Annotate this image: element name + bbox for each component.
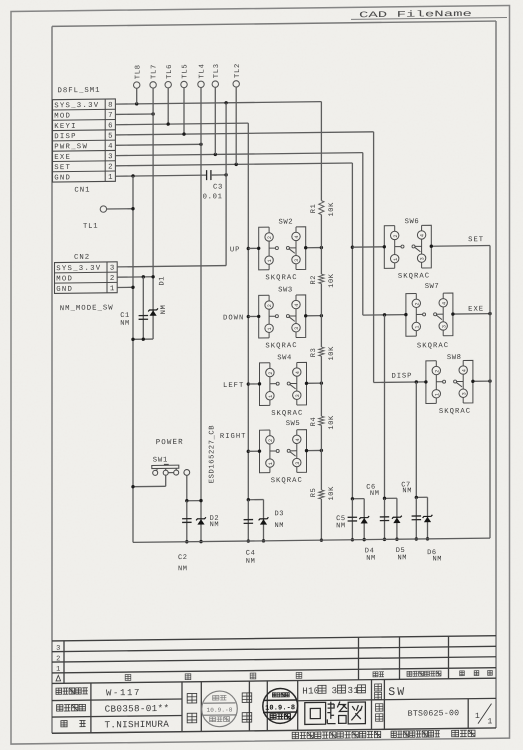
svg-text:SET: SET xyxy=(468,236,484,244)
svg-text:TL6: TL6 xyxy=(166,64,174,79)
svg-text:EXE: EXE xyxy=(54,154,71,162)
svg-text:NM: NM xyxy=(336,522,346,530)
svg-text:UP: UP xyxy=(230,246,241,254)
svg-text:10K: 10K xyxy=(328,346,336,361)
svg-text:SW8: SW8 xyxy=(447,354,462,362)
svg-text:2: 2 xyxy=(434,370,440,373)
svg-text:NM: NM xyxy=(120,320,130,328)
svg-text:T.NISHIMURA: T.NISHIMURA xyxy=(104,719,169,731)
svg-text:10K: 10K xyxy=(328,415,336,430)
svg-text:W-117: W-117 xyxy=(106,688,141,698)
svg-text:NM: NM xyxy=(275,522,285,530)
svg-text:1: 1 xyxy=(488,717,493,726)
svg-text:D1: D1 xyxy=(158,276,166,286)
svg-text:NM: NM xyxy=(366,555,376,563)
svg-text:1: 1 xyxy=(434,393,440,396)
svg-text:SW3: SW3 xyxy=(278,286,293,294)
svg-text:1: 1 xyxy=(393,258,399,261)
svg-text:SW: SW xyxy=(388,686,406,699)
svg-text:4: 4 xyxy=(461,369,467,372)
svg-text:1: 1 xyxy=(56,666,60,674)
svg-text:C2: C2 xyxy=(178,554,188,562)
svg-text:PWR_SW: PWR_SW xyxy=(54,143,88,151)
svg-text:1: 1 xyxy=(267,327,273,330)
svg-text:2: 2 xyxy=(108,163,112,171)
svg-text:2: 2 xyxy=(110,275,114,283)
svg-text:1: 1 xyxy=(414,326,420,329)
svg-text:D8FL_SM1: D8FL_SM1 xyxy=(58,87,101,96)
svg-text:1: 1 xyxy=(108,174,113,182)
svg-text:NM: NM xyxy=(178,565,188,573)
svg-text:3: 3 xyxy=(295,394,301,397)
svg-text:MOD: MOD xyxy=(56,275,73,283)
svg-text:4: 4 xyxy=(294,235,300,238)
svg-text:5: 5 xyxy=(108,133,112,141)
svg-text:1: 1 xyxy=(268,462,274,465)
svg-text:2: 2 xyxy=(267,236,273,239)
svg-text:BTS0625-00: BTS0625-00 xyxy=(408,709,460,719)
svg-text:NM: NM xyxy=(246,558,256,566)
svg-text:3: 3 xyxy=(420,257,426,260)
svg-text:3: 3 xyxy=(56,645,60,653)
svg-text:8: 8 xyxy=(108,102,112,110)
svg-text:10.9.-8: 10.9.-8 xyxy=(265,704,295,712)
svg-text:4: 4 xyxy=(295,371,301,374)
svg-text:SKQRAC: SKQRAC xyxy=(271,477,303,485)
svg-text:10K: 10K xyxy=(328,202,336,217)
svg-text:10.9.-8: 10.9.-8 xyxy=(207,707,233,714)
svg-text:LEFT: LEFT xyxy=(223,382,244,390)
svg-text:KEYI: KEYI xyxy=(54,123,77,131)
svg-text:1: 1 xyxy=(475,712,480,721)
svg-text:DISP: DISP xyxy=(392,372,413,380)
svg-text:C3: C3 xyxy=(213,184,223,192)
svg-text:SKQRAC: SKQRAC xyxy=(398,272,430,280)
svg-text:TL3: TL3 xyxy=(213,63,221,78)
svg-text:MOD: MOD xyxy=(54,112,71,120)
svg-text:DISP: DISP xyxy=(54,133,77,141)
svg-text:POWER: POWER xyxy=(156,439,184,447)
svg-text:NM: NM xyxy=(398,554,408,562)
svg-text:TL4: TL4 xyxy=(199,63,207,78)
svg-text:NM: NM xyxy=(402,487,412,495)
svg-text:NM_MODE_SW: NM_MODE_SW xyxy=(60,304,114,313)
svg-text:10K: 10K xyxy=(328,273,336,288)
svg-text:2: 2 xyxy=(56,655,60,663)
svg-text:CN2: CN2 xyxy=(74,254,90,262)
svg-text:NM: NM xyxy=(160,305,168,315)
svg-text:3: 3 xyxy=(332,685,338,696)
svg-text:SW4: SW4 xyxy=(277,354,292,362)
svg-text:ESD165227_CB: ESD165227_CB xyxy=(209,425,217,484)
svg-text:RIGHT: RIGHT xyxy=(220,433,247,441)
svg-text:2: 2 xyxy=(268,439,274,442)
svg-text:R2: R2 xyxy=(310,275,318,285)
svg-text:1: 1 xyxy=(267,259,273,262)
svg-text:CN1: CN1 xyxy=(74,187,90,195)
svg-text:3: 3 xyxy=(110,265,114,273)
svg-text:1: 1 xyxy=(268,395,274,398)
svg-text:C4: C4 xyxy=(246,550,256,558)
svg-text:4: 4 xyxy=(295,438,301,441)
svg-text:SKQRAC: SKQRAC xyxy=(265,342,297,350)
svg-text:TL2: TL2 xyxy=(234,63,242,78)
svg-text:2: 2 xyxy=(393,234,399,237)
svg-text:R1: R1 xyxy=(310,204,318,214)
svg-text:R4: R4 xyxy=(310,417,318,427)
svg-text:3: 3 xyxy=(294,259,300,262)
svg-text:TL8: TL8 xyxy=(134,64,142,79)
svg-text:SW5: SW5 xyxy=(286,420,301,428)
svg-text:4: 4 xyxy=(294,304,300,307)
svg-text:SYS_3.3V: SYS_3.3V xyxy=(54,102,99,111)
svg-text:NM: NM xyxy=(370,490,380,498)
svg-text:GND: GND xyxy=(56,286,73,294)
svg-text:2: 2 xyxy=(414,302,420,305)
svg-text:2: 2 xyxy=(268,372,274,375)
svg-text:TL5: TL5 xyxy=(182,64,190,79)
svg-text:SW1: SW1 xyxy=(153,456,168,464)
svg-text:H10: H10 xyxy=(302,685,319,696)
svg-text:6: 6 xyxy=(108,122,112,130)
svg-text:NM: NM xyxy=(433,555,443,563)
svg-text:10K: 10K xyxy=(328,486,336,501)
svg-text:DOWN: DOWN xyxy=(223,314,244,322)
svg-text:SKQRAC: SKQRAC xyxy=(417,342,449,350)
svg-text:SET: SET xyxy=(54,164,71,172)
svg-text:3: 3 xyxy=(441,325,447,328)
svg-text:3: 3 xyxy=(461,392,467,395)
svg-text:SKQRAC: SKQRAC xyxy=(271,410,303,418)
svg-text:TL7: TL7 xyxy=(151,64,159,79)
svg-text:SKQRAC: SKQRAC xyxy=(265,274,297,282)
svg-text:7: 7 xyxy=(108,112,112,120)
svg-text:3: 3 xyxy=(294,327,300,330)
svg-text:SW7: SW7 xyxy=(425,283,440,291)
svg-text:4: 4 xyxy=(108,143,113,151)
svg-text:3: 3 xyxy=(108,153,112,161)
svg-text:0.01: 0.01 xyxy=(203,193,223,201)
svg-text:EXE: EXE xyxy=(468,306,484,314)
svg-text:4: 4 xyxy=(441,302,447,305)
svg-text:NM: NM xyxy=(210,521,220,529)
svg-text:3: 3 xyxy=(295,462,301,465)
svg-text:4: 4 xyxy=(420,234,426,237)
svg-text:R5: R5 xyxy=(310,488,318,498)
svg-text:SW2: SW2 xyxy=(279,218,294,226)
svg-text:2: 2 xyxy=(267,304,273,307)
svg-text:1: 1 xyxy=(110,285,115,293)
svg-text:SW6: SW6 xyxy=(405,218,420,226)
svg-text:GND: GND xyxy=(54,174,71,182)
svg-text:CB0358-01**: CB0358-01** xyxy=(105,703,170,715)
svg-text:SKQRAC: SKQRAC xyxy=(439,408,471,416)
svg-text:R3: R3 xyxy=(310,348,318,358)
svg-text:TL1: TL1 xyxy=(83,223,98,231)
svg-text:SYS_3.3V: SYS_3.3V xyxy=(56,265,101,274)
svg-text:D3: D3 xyxy=(275,510,285,518)
